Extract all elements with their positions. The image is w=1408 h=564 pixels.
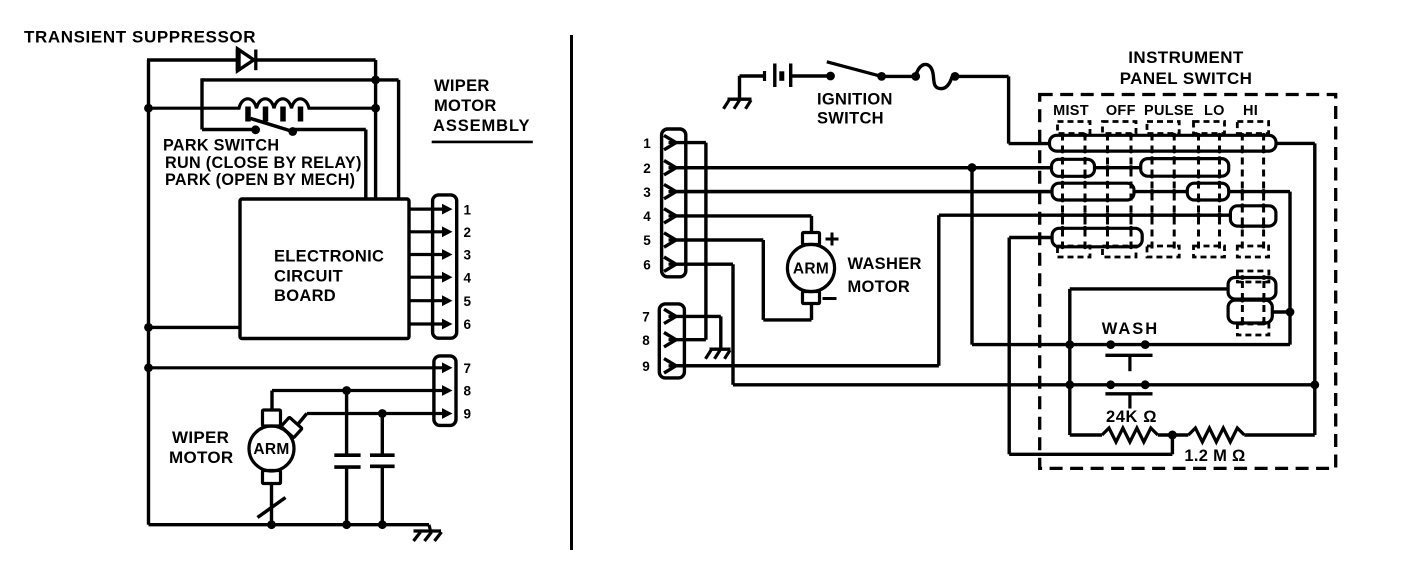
transient suppressor diode CR1 — [238, 49, 256, 71]
wire wash-b stub — [1272, 310, 1290, 313]
node junction C1/ground bus — [342, 520, 351, 529]
wire 24K left lead — [1070, 433, 1102, 436]
node junction motor/ground bus — [267, 520, 276, 529]
wash switch S3 stem b — [1128, 394, 1131, 409]
capacitor C2 — [370, 414, 395, 525]
wire pin9 diagonal to motor brush — [294, 414, 307, 430]
pin 8 wire+arrow — [272, 385, 453, 396]
park switch S1 blade — [251, 118, 293, 131]
wire pin4 — [676, 214, 812, 217]
node junction wash-b/row3 drop — [1286, 308, 1295, 317]
wire pin5 — [676, 238, 763, 241]
circuit breaker slash — [258, 498, 286, 518]
svg-text:IGNITION: IGNITION — [817, 91, 893, 109]
svg-text:WIPER: WIPER — [434, 77, 490, 95]
slider column OFF dashed — [1103, 122, 1137, 258]
svg-text:RUN (CLOSE BY RELAY): RUN (CLOSE BY RELAY) — [165, 154, 362, 172]
svg-text:ELECTRONIC: ELECTRONIC — [274, 248, 384, 266]
svg-text:INSTRUMENT: INSTRUMENT — [1128, 48, 1244, 67]
crossing blobs (scan artifacts at dashed/solid intersections) — [1060, 133, 1266, 325]
wire battery negative — [740, 74, 765, 77]
pin 7 wire+arrow — [149, 362, 453, 373]
wire pin9 riser — [937, 215, 940, 366]
svg-text:7: 7 — [642, 310, 650, 325]
contact row3 lo — [1187, 183, 1228, 200]
wire row1 out — [1276, 142, 1315, 145]
wire wash row2 run — [733, 383, 1315, 386]
svg-text:1: 1 — [464, 202, 472, 217]
connector J3 shell — [662, 129, 686, 277]
svg-text:PULSE: PULSE — [1144, 103, 1194, 119]
node junction divider tap — [1168, 431, 1177, 440]
pin glyph 5 — [664, 233, 676, 247]
relay coil (park relay winding) — [149, 99, 376, 122]
svg-text:5: 5 — [464, 294, 472, 309]
wire ignition into panel — [1009, 142, 1051, 145]
contact wash-b — [1228, 300, 1272, 323]
svg-text:ARM: ARM — [793, 261, 829, 278]
svg-text:ARM: ARM — [253, 441, 289, 458]
node junction bus/board — [144, 323, 153, 332]
slider column HI dashed — [1237, 122, 1268, 258]
wash switch S3 bar b — [1105, 392, 1152, 395]
pin 5 wire+arrow — [409, 295, 453, 306]
wire loop right drop to board — [397, 80, 400, 199]
separator line — [570, 35, 573, 550]
wash switch S3 contact a2 — [1141, 340, 1150, 349]
wire battery to ignition switch — [791, 74, 831, 77]
svg-text:MOTOR: MOTOR — [169, 448, 233, 467]
contact row1 (feed rail) — [1050, 135, 1277, 151]
instrument panel switch dashed enclosure — [1040, 95, 1336, 469]
svg-text:MOTOR: MOTOR — [848, 278, 911, 296]
wire ignition drop — [1007, 76, 1010, 143]
svg-text:MOTOR: MOTOR — [434, 97, 497, 115]
svg-text:1.2 M Ω: 1.2 M Ω — [1184, 447, 1245, 465]
svg-text:OFF: OFF — [1106, 103, 1136, 119]
wire left vertical bus — [147, 60, 150, 525]
contact row2 mist — [1052, 159, 1095, 176]
connector J4 shell — [659, 304, 684, 378]
wire loop left drop — [200, 78, 203, 129]
slider column PULSE dashed — [1147, 122, 1179, 258]
wire divider tap run — [1009, 453, 1172, 456]
svg-text:PARK (OPEN BY MECH): PARK (OPEN BY MECH) — [165, 171, 355, 189]
wire pin6 — [676, 263, 733, 266]
resistor R2 1.2M — [1188, 428, 1244, 442]
svg-text:9: 9 — [642, 359, 650, 374]
wire motor minus drop — [810, 304, 813, 320]
wire R2 right lead — [1244, 433, 1315, 436]
pin glyph 6 — [664, 257, 676, 271]
capacitor C1 — [334, 391, 360, 525]
wire row2 link — [1095, 166, 1141, 169]
washer motor top terminal — [803, 233, 820, 245]
svg-text:WASHER: WASHER — [848, 255, 922, 273]
wire pin2 — [676, 166, 1052, 169]
washer motor M2 body — [787, 244, 834, 291]
pin glyph 4 — [664, 209, 676, 223]
svg-text:CIRCUIT: CIRCUIT — [274, 267, 343, 285]
wire wash row1 run — [972, 343, 1290, 346]
node junction (loop top / diode drop) — [371, 76, 380, 85]
fusible link F1 — [916, 64, 953, 88]
wiper motor top terminal — [263, 410, 281, 426]
svg-text:BOARD: BOARD — [274, 287, 336, 305]
wire hi rail drop — [1313, 143, 1316, 435]
pin 1 wire+arrow — [409, 204, 453, 215]
wire pin6 drop — [731, 264, 734, 385]
ground (battery) stub — [738, 76, 741, 99]
slider column LO dashed — [1194, 122, 1225, 258]
contact row5 mist-off — [1052, 228, 1142, 247]
wire pin1 drop to pin8 — [704, 143, 707, 340]
node junction C2/pin9 wire — [378, 409, 387, 418]
wire pin7 — [676, 315, 721, 318]
wash switch S3 stem a — [1128, 355, 1131, 371]
svg-text:1: 1 — [643, 136, 651, 151]
park switch S1 left contact — [251, 125, 260, 134]
contact row3 mist-off — [1052, 183, 1134, 200]
node junction wash row2/hi rail — [1310, 380, 1319, 389]
park switch S1 right contact — [288, 127, 297, 136]
wire motor to ground bus — [270, 484, 273, 525]
svg-text:2: 2 — [643, 161, 651, 176]
svg-text:4: 4 — [464, 270, 472, 285]
wire pin8 drop to motor + — [270, 391, 273, 412]
svg-text:LO: LO — [1204, 103, 1225, 119]
wire top (diode branch) — [147, 58, 376, 61]
resistor R1 24K — [1102, 428, 1158, 442]
wash switch S3 contact b1 — [1106, 380, 1115, 389]
svg-text:3: 3 — [643, 185, 651, 200]
wire fuse to panel — [955, 75, 1009, 78]
svg-text:PARK SWITCH: PARK SWITCH — [163, 137, 279, 155]
electronic circuit board U1 — [240, 199, 409, 339]
node junction C2/ground bus — [378, 520, 387, 529]
pin 9 wire+arrow — [307, 408, 453, 419]
contact wash-a — [1228, 278, 1276, 300]
connector J1 shell — [433, 195, 457, 338]
node fuse right — [951, 72, 960, 81]
pin glyph 8 — [664, 333, 676, 347]
wire row3 drop — [1288, 192, 1291, 345]
node junction coil left — [144, 104, 153, 113]
wire row5 feed — [1009, 236, 1052, 239]
svg-text:8: 8 — [642, 333, 650, 348]
wire 24K riser — [1068, 289, 1071, 435]
wire pin7 ground drop — [719, 316, 722, 349]
battery B1 — [765, 64, 791, 88]
wire pin3 — [676, 190, 1052, 193]
svg-text:MIST: MIST — [1053, 103, 1089, 119]
node junction bus/pin7 — [144, 363, 153, 372]
node junction pin2/branch — [968, 163, 977, 172]
contact row4 hi — [1230, 206, 1276, 226]
ignition switch S2 right contact — [877, 72, 886, 81]
wire pin4 drop to motor — [810, 216, 813, 233]
svg-text:SWITCH: SWITCH — [817, 110, 884, 128]
svg-text:PANEL SWITCH: PANEL SWITCH — [1120, 69, 1253, 88]
pin 2 wire+arrow — [409, 226, 453, 237]
wire park switch to board — [293, 128, 366, 131]
wash switch S3 contact b2 — [1141, 380, 1150, 389]
svg-text:ASSEMBLY: ASSEMBLY — [433, 117, 530, 135]
svg-text:WIPER: WIPER — [172, 428, 229, 447]
wire board feed from bus — [149, 326, 241, 329]
ignition switch S2 left contact — [826, 72, 835, 81]
svg-text:7: 7 — [464, 361, 472, 376]
pin glyph 3 — [664, 184, 676, 198]
pin 3 wire+arrow — [409, 249, 453, 260]
wire rect wash-a feed — [1070, 287, 1228, 290]
wire pin1 — [676, 141, 706, 144]
wire row3 feed — [671, 190, 1052, 193]
ignition switch S2 blade — [827, 62, 882, 77]
wire row3 out — [1229, 190, 1290, 193]
label: - (washer motor) — [823, 297, 837, 300]
wire divider tap stub — [1171, 435, 1174, 454]
wire to park switch contact — [202, 128, 256, 131]
ground (chassis) left half — [414, 525, 442, 541]
ground (chassis) battery — [724, 99, 752, 109]
wash switch S3 contact a1 — [1106, 340, 1115, 349]
wire row3 link — [1134, 190, 1187, 193]
label: + (washer motor) — [826, 233, 839, 246]
wire bottom ground bus — [149, 523, 430, 526]
wire pin9 lead — [676, 364, 939, 367]
svg-text:5: 5 — [643, 233, 651, 248]
pin glyph 2 — [664, 161, 676, 175]
wire row4 feed — [939, 213, 1231, 216]
svg-text:WASH: WASH — [1102, 320, 1160, 338]
washer motor bottom terminal — [803, 292, 820, 304]
contact row2 pulse-lo — [1141, 159, 1229, 177]
wire divider riser — [1008, 238, 1011, 455]
svg-text:8: 8 — [464, 384, 472, 399]
pin 4 wire+arrow — [409, 272, 453, 283]
connector J2 shell — [434, 356, 456, 426]
node fuse left — [911, 72, 920, 81]
svg-text:2: 2 — [464, 225, 472, 240]
slider column (wash contacts) dashed — [1237, 271, 1269, 335]
wire pin8 — [676, 338, 706, 341]
node junction C1/pin8 wire — [342, 386, 351, 395]
wire pin5 drop — [762, 240, 765, 320]
wire from diode down to circuit board — [374, 60, 377, 199]
node junction 24K riser/wash row1 — [1065, 340, 1074, 349]
wire pin2 branch drop — [970, 168, 973, 345]
svg-text:3: 3 — [464, 248, 472, 263]
slider column MIST dashed — [1058, 122, 1091, 258]
wire switch to fusible link — [882, 75, 916, 78]
svg-text:4: 4 — [643, 209, 651, 224]
wiper motor angled brush terminal — [281, 417, 302, 438]
pin glyph 7 — [664, 309, 676, 323]
node junction 24K riser/wash row2 — [1065, 380, 1074, 389]
pin glyph 9 — [664, 359, 676, 373]
pin glyph 1 — [664, 135, 676, 149]
wire pin9 run — [671, 364, 939, 367]
node junction coil right — [371, 104, 380, 113]
ground (chassis) connector — [706, 349, 731, 359]
svg-text:9: 9 — [464, 407, 472, 422]
svg-text:6: 6 — [464, 317, 472, 332]
wire drop into board — [364, 130, 367, 200]
wiper motor bottom terminal — [263, 471, 281, 484]
svg-text:24K Ω: 24K Ω — [1106, 408, 1157, 426]
wiper motor M1 body — [249, 426, 294, 471]
wash switch S3 bar a — [1105, 354, 1152, 357]
underline assembly — [432, 141, 533, 144]
wire park-switch loop top — [202, 78, 399, 81]
wire pin5 run — [763, 318, 811, 321]
node junction pin2 branch — [968, 163, 977, 172]
pin 6 wire+arrow — [409, 319, 453, 330]
svg-text:HI: HI — [1243, 103, 1258, 119]
svg-text:6: 6 — [643, 257, 651, 272]
wire row2 feed — [671, 166, 1052, 169]
svg-text:TRANSIENT SUPPRESSOR: TRANSIENT SUPPRESSOR — [24, 28, 256, 47]
wire R1-R2 lead — [1158, 433, 1189, 436]
